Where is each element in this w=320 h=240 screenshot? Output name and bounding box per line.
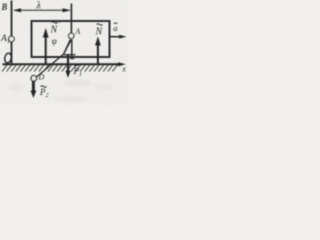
- N' arrowhead: [43, 28, 49, 38]
- point label 4/A glyph: [64, 40, 72, 54]
- wall attachment circle A1: [9, 36, 15, 42]
- a arrowhead: [119, 35, 127, 39]
- block rectangle: [32, 21, 110, 57]
- weight P1 arrow: [67, 54, 69, 73]
- left leg / N' shaft: [45, 32, 47, 64]
- thread from hook to ring: [36, 40, 70, 78]
- N arrowhead: [95, 37, 101, 46]
- ground hatching: [2, 65, 117, 72]
- x axis arrowhead: [118, 62, 126, 66]
- P2 arrowhead: [31, 91, 37, 99]
- right leg / N shaft: [97, 41, 99, 65]
- scan smudges: [8, 80, 114, 101]
- left arrowhead of lambda: [13, 8, 21, 12]
- N overbar: [97, 24, 103, 26]
- wall / y-axis vertical line: [11, 1, 13, 64]
- P1 arrowhead: [65, 71, 70, 79]
- ring circle D: [31, 76, 37, 82]
- origin O ellipse: [4, 53, 12, 64]
- right arrowhead of lambda: [63, 8, 71, 12]
- hook circle A: [69, 33, 74, 38]
- acceleration arrow a: [110, 36, 121, 38]
- paper grain: [0, 0, 128, 105]
- ground line / x-axis: [3, 63, 120, 65]
- weight P2 arrow: [32, 82, 35, 94]
- dimension line lambda: [14, 9, 70, 11]
- N' overbar: [52, 22, 58, 24]
- hook hanger vertical line: [70, 4, 72, 34]
